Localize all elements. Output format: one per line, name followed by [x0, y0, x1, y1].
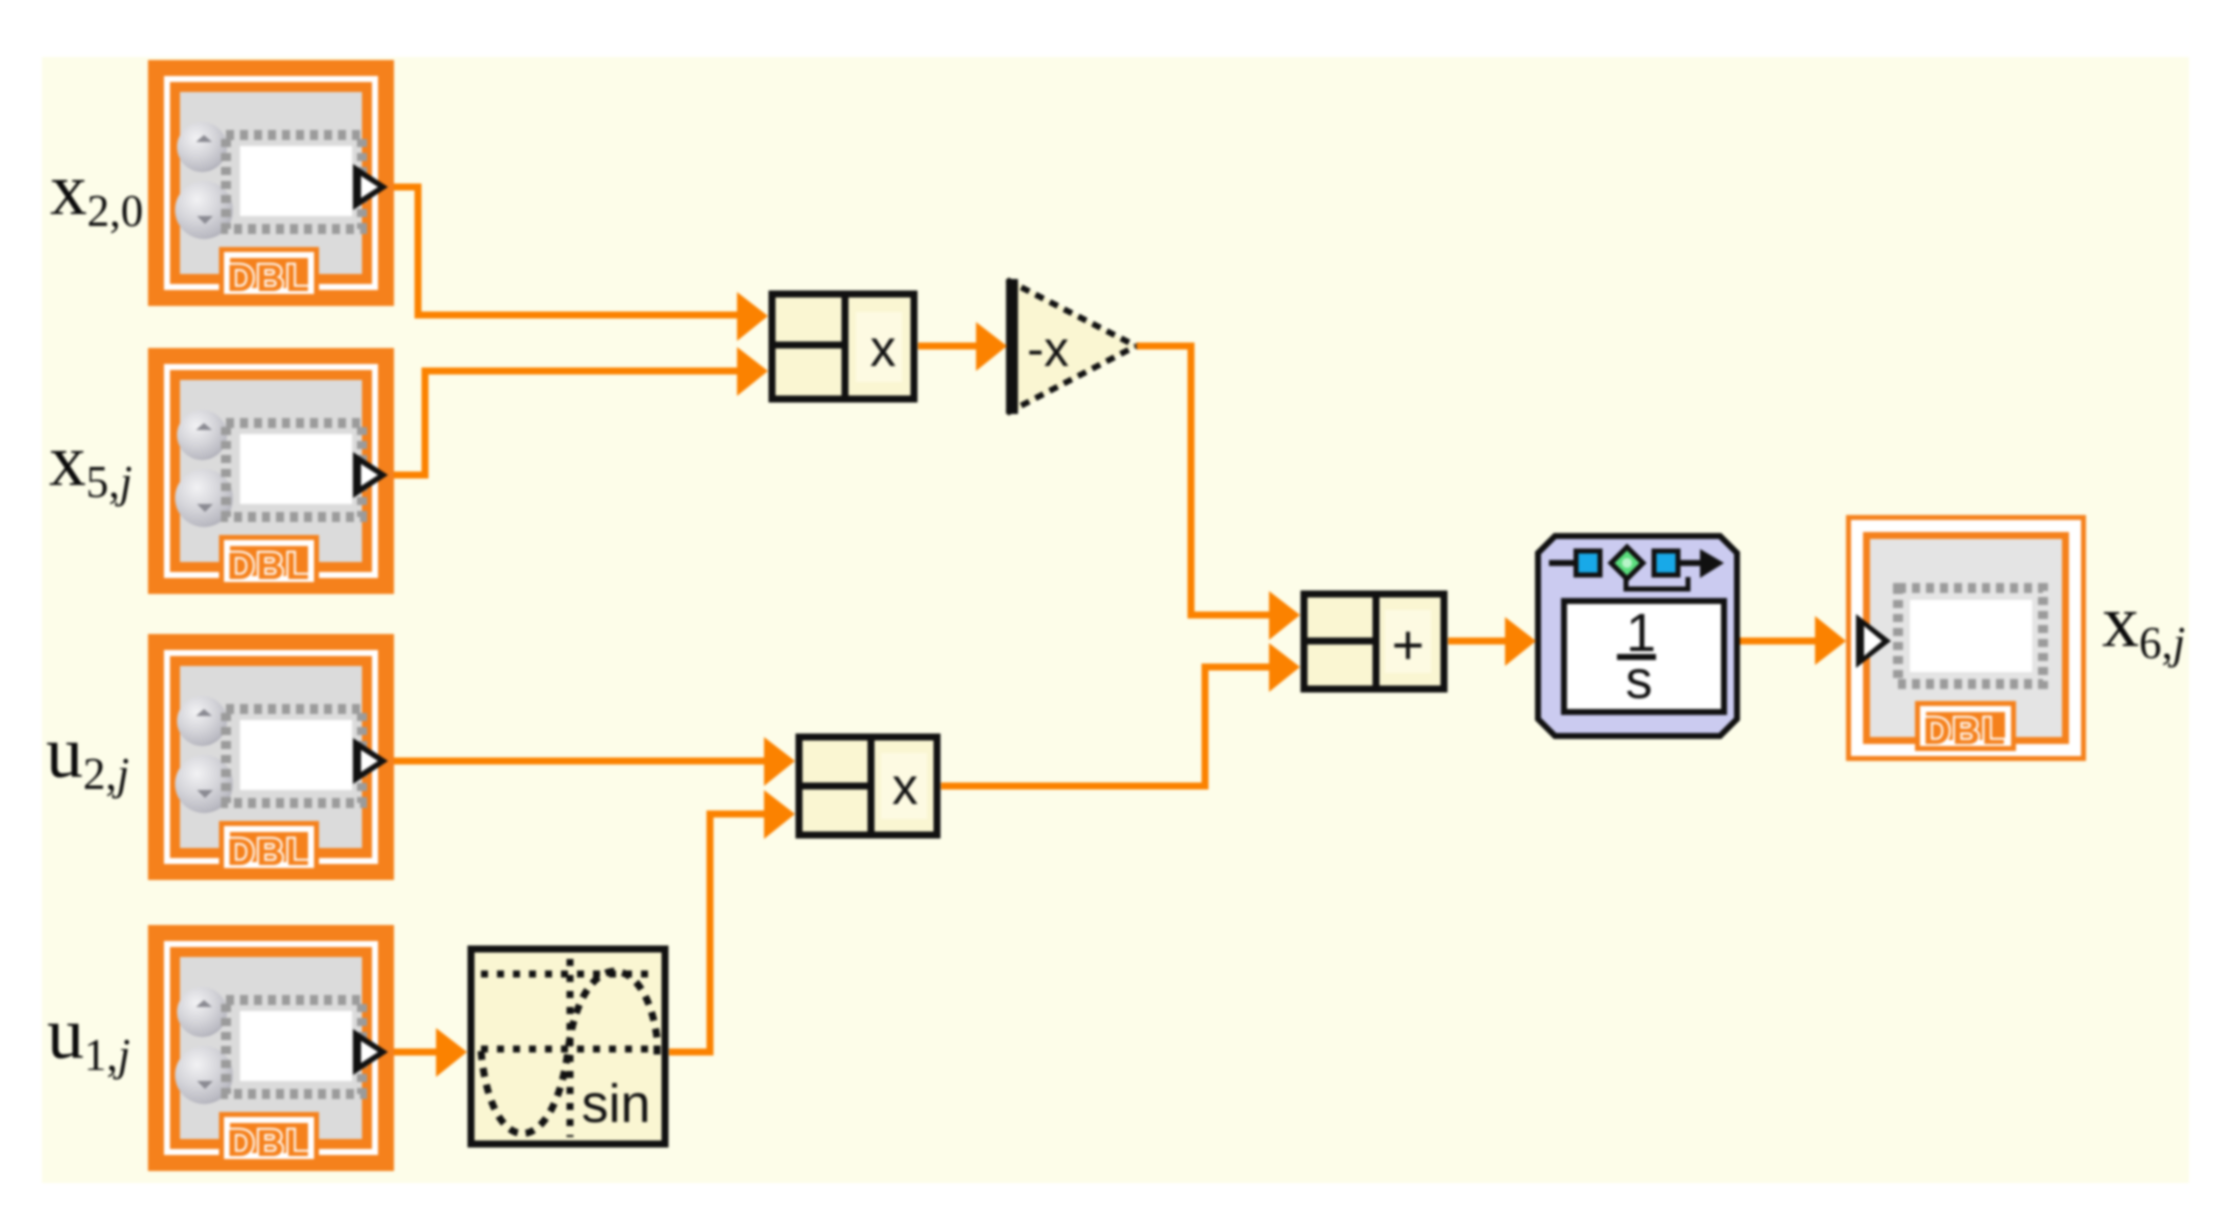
wire multiply to negate [918, 343, 1000, 350]
svg-text:sin: sin [581, 1074, 650, 1134]
arrow into add top [1269, 591, 1300, 640]
multiply node 2 [799, 737, 937, 835]
numeric control x2,0 [148, 60, 394, 306]
arrow into indicator [1815, 616, 1846, 665]
wire add to integrator [1448, 638, 1530, 645]
arrow into add bottom [1269, 643, 1300, 692]
svg-text:DBL: DBL [227, 832, 311, 874]
arrow into multiply1 top [737, 292, 768, 341]
svg-text:x: x [870, 320, 896, 378]
add node [1304, 594, 1444, 689]
svg-text:-x: -x [1027, 321, 1069, 377]
numeric control u2,j [148, 634, 394, 880]
wire u1,j to sin [384, 1049, 462, 1056]
numeric indicator x6,j [1846, 515, 2086, 761]
wire u2,j to multiply2 top input [384, 758, 790, 765]
negate node [1007, 277, 1136, 416]
wire x2,0 to multiply top input [384, 187, 760, 315]
sin node [471, 949, 665, 1144]
svg-text:s: s [1626, 650, 1653, 710]
wire multiply2 to add bottom input [941, 667, 1295, 786]
wire integrator to indicator [1740, 638, 1842, 645]
arrow into integrator [1505, 617, 1536, 666]
arrow into multiply2 bottom [764, 790, 795, 839]
arrow into negate [976, 322, 1007, 371]
svg-text:DBL: DBL [227, 546, 311, 588]
wire sin to multiply2 bottom input [669, 814, 790, 1052]
arrow into multiply1 bottom [737, 347, 768, 396]
svg-text:+: + [1392, 613, 1425, 676]
numeric control x5,j [148, 348, 394, 594]
numeric control u1,j [148, 925, 394, 1171]
svg-text:x: x [892, 758, 918, 816]
multiply node 1 [772, 294, 914, 399]
arrow into sin [436, 1028, 467, 1077]
wire x5,j to multiply bottom input [384, 371, 760, 475]
svg-text:DBL: DBL [227, 258, 311, 300]
wire negate to add top input [1136, 346, 1295, 615]
svg-text:DBL: DBL [1923, 711, 2007, 753]
arrow into multiply2 top [764, 737, 795, 786]
integrator node 1/s [1538, 536, 1737, 736]
svg-text:DBL: DBL [227, 1123, 311, 1165]
